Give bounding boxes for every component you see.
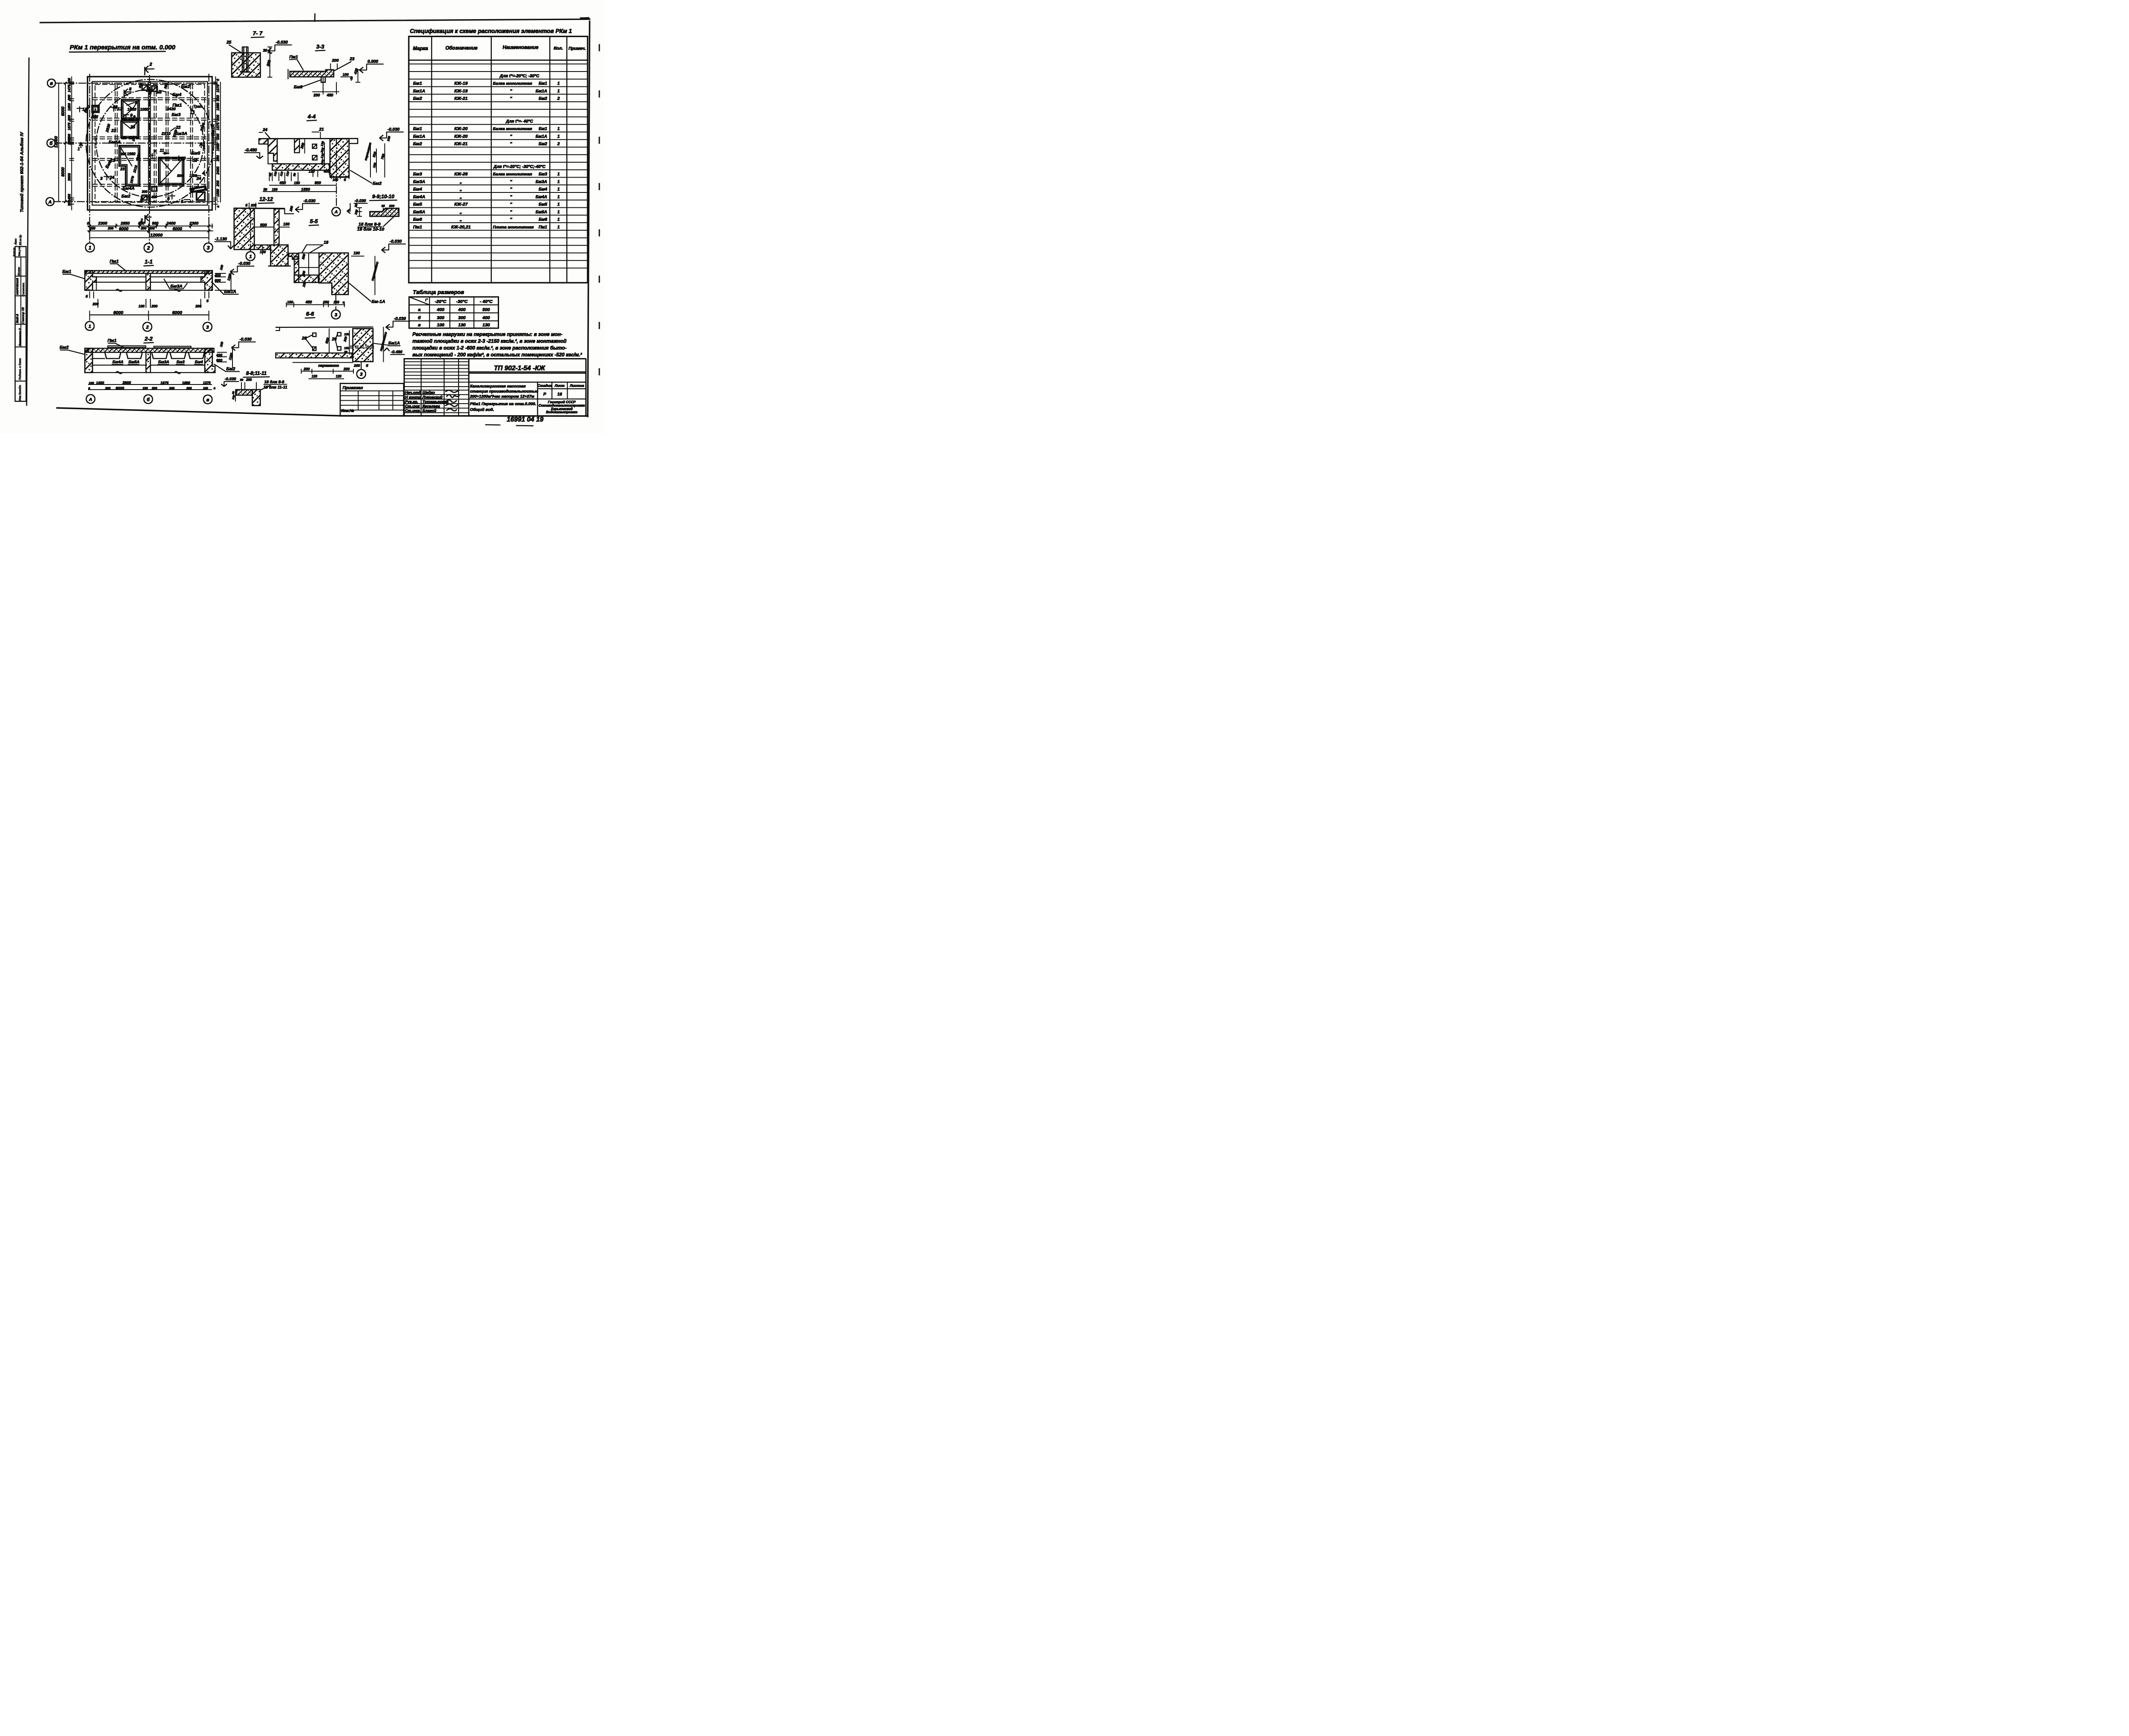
svg-text:Бм1: Бм1: [539, 81, 547, 86]
opening top small b: [152, 86, 158, 92]
svg-text:100: 100: [386, 135, 391, 142]
svg-text:200: 200: [105, 386, 111, 390]
opening bottom small a: [142, 195, 147, 200]
svg-text:7: 7: [153, 150, 156, 155]
svg-text:2830: 2830: [105, 123, 111, 133]
svg-text:100: 100: [353, 251, 360, 255]
left margin stamp column boxes: [15, 247, 26, 402]
svg-text:-0.030: -0.030: [387, 127, 400, 132]
plan outer wall: [88, 77, 212, 210]
cut mark 10: [178, 156, 180, 161]
svg-text:Инв.№подл.: Инв.№подл.: [18, 385, 22, 401]
svg-text:2300: 2300: [98, 221, 108, 226]
1-1 axis circles: [85, 321, 94, 330]
5-5 top-left notch slab: [289, 253, 299, 259]
svg-text:120: 120: [312, 375, 318, 379]
svg-text:Расчетные нагрузки на перек: Расчетные нагрузки на перекрытие приняты…: [413, 332, 562, 337]
svg-text:6000: 6000: [113, 310, 123, 316]
plan inner wall line: [92, 82, 208, 205]
svg-text:19 для 10-10: 19 для 10-10: [357, 227, 384, 232]
svg-text:100: 100: [260, 250, 266, 254]
svg-text:30: 30: [354, 203, 359, 208]
svg-text:1: 1: [557, 209, 560, 215]
svg-text:100: 100: [333, 178, 339, 182]
svg-text:Зам.учт: Зам.учт: [19, 246, 21, 256]
svg-text:400: 400: [214, 273, 221, 278]
cut mark 8: [123, 90, 126, 98]
svg-text:А: А: [89, 397, 92, 402]
svg-text:Лист: Лист: [554, 384, 565, 388]
svg-text:2310: 2310: [161, 132, 171, 136]
cut mark 3: [106, 175, 108, 180]
svg-text:в: в: [50, 81, 53, 86]
svg-text:Бм1А: Бм1А: [224, 289, 236, 294]
4-4 wall web left: [276, 161, 278, 164]
cut mark 11: [163, 152, 169, 155]
opening bottom right thick: [197, 192, 205, 200]
svg-text:„: „: [459, 187, 462, 192]
cut mark 10b: [189, 160, 192, 165]
svg-text:100: 100: [89, 381, 94, 385]
svg-text:Кол.: Кол.: [554, 46, 563, 51]
svg-text:КЖ-20,21: КЖ-20,21: [451, 224, 471, 230]
6-6 anchor squares right: [338, 333, 341, 336]
beam line pair v3: [165, 84, 167, 203]
9-9 slab: [370, 208, 399, 216]
svg-text:А: А: [334, 209, 338, 215]
svg-text:2: 2: [146, 325, 149, 330]
svg-text:1: 1: [557, 217, 560, 222]
svg-text:Таблица размеров: Таблица размеров: [413, 289, 465, 296]
svg-text:450: 450: [151, 195, 157, 199]
svg-text:Бм4А: Бм4А: [123, 186, 135, 191]
axis bubble 3 (plan): [204, 243, 213, 252]
svg-text:6000: 6000: [119, 227, 129, 232]
svg-text:30: 30: [382, 204, 385, 208]
svg-text:Канализационная насосная: Канализационная насосная: [470, 384, 526, 389]
svg-text:вых помещений - 200 кгф/м²,: вых помещений - 200 кгф/м², в остальных …: [413, 352, 582, 358]
svg-text:5: 5: [181, 199, 184, 204]
svg-text:150: 150: [344, 346, 350, 350]
svg-text:Бм3А: Бм3А: [413, 179, 425, 184]
svg-text:6000: 6000: [61, 167, 66, 177]
svg-text:Бм3А: Бм3А: [536, 180, 547, 184]
svg-text:-30°C: -30°C: [456, 299, 468, 304]
sheet frame corner tick: [313, 14, 316, 21]
svg-text:130: 130: [482, 323, 490, 328]
bottom dim row1: [88, 225, 213, 227]
svg-text:Бм5А: Бм5А: [413, 209, 425, 215]
svg-text:9: 9: [133, 115, 136, 120]
1-1 left end block: [85, 271, 96, 290]
svg-text:1: 1: [557, 172, 560, 177]
svg-text:площадки в осях 1-2 -600 к: площадки в осях 1-2 -600 кгс/м.², в зоне…: [413, 345, 567, 351]
svg-text:300: 300: [301, 253, 306, 260]
svg-text:1675: 1675: [68, 122, 72, 130]
svg-text:1850: 1850: [68, 103, 72, 111]
svg-text:400: 400: [458, 307, 466, 313]
svg-text:450: 450: [326, 93, 333, 97]
svg-text:19: 19: [324, 241, 329, 245]
svg-text:30: 30: [240, 378, 244, 382]
4-4 left ledge: [259, 139, 268, 144]
svg-text:0.000: 0.000: [367, 60, 378, 64]
svg-text:Инв.№: Инв.№: [341, 409, 354, 413]
svg-text:Álam: Álam: [14, 238, 17, 245]
svg-text:-1.130: -1.130: [215, 237, 227, 242]
svg-text:Бм5А: Бм5А: [536, 210, 547, 215]
svg-text:Бм1А: Бм1А: [413, 89, 425, 94]
svg-text:тажной площадки в осях 2-3: тажной площадки в осях 2-3 -2150 кгс/м.²…: [413, 339, 567, 344]
svg-text:1: 1: [557, 81, 560, 86]
svg-text:400: 400: [216, 353, 222, 357]
svg-text:200: 200: [216, 95, 220, 101]
svg-text:в: в: [418, 323, 421, 328]
svg-text:200: 200: [353, 363, 360, 367]
beam line pair v1: [115, 84, 116, 203]
6-6 anchor squares left: [313, 333, 316, 336]
svg-text:100: 100: [343, 72, 349, 77]
opening hatch 25: [121, 121, 139, 138]
svg-text:Кеселева: Кеселева: [422, 404, 440, 408]
svg-text:12-12: 12-12: [259, 196, 273, 202]
cut mark 2 bottom: [143, 215, 146, 224]
svg-text:6: 6: [167, 196, 170, 201]
svg-text:„: „: [459, 209, 462, 215]
axis bubble Б: [47, 139, 55, 147]
6-6 left slab piece: [276, 327, 280, 331]
svg-text:-0.030: -0.030: [390, 239, 402, 244]
svg-text:″: ″: [510, 89, 512, 94]
opening top small a: [142, 85, 148, 91]
svg-text:″: ″: [510, 187, 512, 192]
svg-text:1: 1: [557, 194, 560, 199]
svg-text:1: 1: [249, 254, 252, 259]
5-5 left wall: [294, 257, 299, 283]
svg-text:КЖ-20: КЖ-20: [454, 126, 468, 132]
svg-text:120: 120: [286, 171, 290, 177]
svg-text:200: 200: [216, 181, 220, 187]
svg-text:№кл.пр: №кл.пр: [13, 247, 16, 257]
svg-text:Привязан: Привязан: [343, 386, 363, 390]
svg-text:1950: 1950: [127, 152, 135, 156]
svg-text:1450: 1450: [96, 381, 104, 385]
svg-text:200: 200: [343, 336, 348, 342]
svg-text:3900: 3900: [68, 173, 72, 181]
svg-text:- 40°C: - 40°C: [480, 299, 493, 304]
svg-text:150: 150: [142, 386, 148, 390]
svg-text:19 для 11-11: 19 для 11-11: [264, 385, 287, 390]
svg-text:Балка монолитная: Балка монолитная: [493, 127, 532, 132]
svg-text:„: „: [459, 217, 462, 222]
plan slab edge dashed: [95, 84, 204, 202]
svg-text:Бм1А: Бм1А: [413, 134, 425, 139]
svg-text:1475: 1475: [68, 84, 72, 92]
svg-text:Бм3А: Бм3А: [170, 284, 183, 289]
2-2 axis circles: [86, 395, 95, 404]
svg-text:200: 200: [246, 378, 252, 382]
svg-text:Соколовск.: Соколовск.: [22, 282, 25, 297]
axis line А: [53, 201, 219, 203]
svg-text:„: „: [459, 194, 462, 199]
svg-text:″: ″: [510, 194, 512, 199]
2-2 right end block: [205, 348, 215, 373]
opening hatch 8/9: [122, 100, 139, 119]
svg-text:3900: 3900: [122, 381, 131, 385]
svg-text:-0.480: -0.480: [391, 350, 403, 355]
svg-text:1: 1: [557, 89, 560, 94]
svg-text:б: б: [366, 363, 368, 367]
svg-text:1: 1: [203, 145, 206, 150]
svg-text:23: 23: [120, 167, 125, 171]
svg-text:Взаимозам.Л: Взаимозам.Л: [19, 328, 22, 346]
5-5 bottom dims: [287, 304, 345, 306]
svg-text:1: 1: [557, 187, 560, 192]
8-8 leader: [261, 385, 271, 390]
7-7 concrete block: [232, 53, 261, 77]
beam line pair h4: [93, 158, 207, 159]
axis bubble 2 (plan): [144, 244, 153, 253]
svg-text:150: 150: [294, 181, 300, 185]
tank circle outer: [86, 80, 214, 207]
svg-text:24: 24: [262, 128, 268, 132]
svg-text:-0.030: -0.030: [304, 199, 316, 204]
svg-text:1100: 1100: [228, 352, 234, 360]
svg-text:Ст.инж: Ст.инж: [405, 404, 420, 408]
svg-text:200: 200: [250, 204, 257, 207]
svg-text:23: 23: [349, 57, 355, 61]
svg-text:26: 26: [301, 336, 307, 341]
svg-text:1550: 1550: [216, 189, 220, 197]
svg-text:1670: 1670: [129, 175, 135, 184]
5-5 axis 3 circle: [335, 295, 337, 310]
svg-text:2300: 2300: [189, 221, 199, 226]
svg-text:1950: 1950: [216, 143, 220, 151]
svg-text:9-9;10-10: 9-9;10-10: [372, 194, 394, 200]
svg-text:Для t°=-20°C; -30°C: Для t°=-20°C; -30°C: [499, 74, 540, 78]
cut mark 6: [171, 194, 173, 199]
svg-text:16: 16: [557, 392, 562, 397]
svg-text:в: в: [343, 301, 345, 304]
svg-text:Бм3: Бм3: [539, 172, 547, 177]
axis bubble В: [47, 79, 55, 87]
svg-text:Наименование: Наименование: [502, 45, 539, 50]
svg-text:Марка: Марка: [413, 46, 428, 52]
opening small left: [92, 106, 99, 112]
svg-text:23: 23: [112, 105, 118, 110]
svg-text:-0.030: -0.030: [394, 316, 406, 321]
axis line 2: [149, 75, 151, 244]
svg-text:Бм6: Бм6: [294, 85, 302, 90]
svg-text:100: 100: [203, 387, 208, 390]
12-12 top line: [234, 207, 285, 210]
right dim detail chain: [215, 77, 216, 210]
svg-text:8-8;11-11: 8-8;11-11: [246, 371, 267, 376]
6-6 block dashes: [350, 345, 376, 347]
cut mark 1 left: [80, 143, 82, 148]
3-3 slab left tick: [287, 69, 289, 79]
svg-text:б: б: [344, 178, 347, 182]
svg-text:250: 250: [89, 227, 96, 230]
svg-text:Бм6: Бм6: [413, 217, 422, 222]
svg-text:Бм5: Бм5: [413, 202, 422, 207]
svg-text:1: 1: [557, 179, 560, 184]
svg-text:395: 395: [121, 152, 126, 156]
bottom dim row2: [88, 230, 213, 232]
svg-text:20: 20: [232, 391, 235, 395]
svg-text:300: 300: [458, 315, 466, 320]
svg-text:1850: 1850: [182, 381, 190, 385]
4-4 right wall: [330, 139, 349, 178]
beam line pair h5: [93, 184, 207, 185]
svg-text:Пм1: Пм1: [290, 55, 298, 60]
2-2 plate strips: [108, 346, 146, 347]
svg-text:Шейко: Шейко: [422, 390, 435, 395]
svg-text:3-3: 3-3: [316, 43, 325, 50]
svg-text:3: 3: [335, 313, 337, 318]
svg-text:Р: Р: [543, 392, 546, 397]
1-1 beam lines right bay: [150, 276, 205, 278]
svg-text:„: „: [459, 179, 462, 184]
svg-text:Спецификация к схеме располож: Спецификация к схеме расположения элемен…: [410, 28, 572, 34]
svg-text:Госстрой СССР: Госстрой СССР: [548, 400, 576, 404]
svg-text:переменно: переменно: [318, 363, 339, 367]
svg-text:Бм4А: Бм4А: [112, 360, 123, 364]
svg-text:1: 1: [89, 324, 91, 329]
svg-text:200: 200: [141, 227, 147, 230]
sheet frame right border: [588, 21, 590, 416]
svg-text:200: 200: [68, 95, 72, 101]
5-5 inner opening: [299, 253, 319, 275]
svg-text:23: 23: [111, 129, 116, 133]
svg-text:6000: 6000: [61, 106, 66, 116]
svg-text:200: 200: [107, 227, 114, 230]
leader 8: [127, 103, 135, 106]
plan centre wall: [147, 82, 149, 204]
svg-text:16991 04 19: 16991 04 19: [507, 416, 544, 423]
svg-text:Для t°=-20°C; -30°C;-40°C: Для t°=-20°C; -30°C;-40°C: [493, 164, 546, 169]
svg-text:б: б: [207, 299, 209, 303]
4-4 top line: [259, 137, 358, 141]
svg-text:5-5: 5-5: [310, 218, 318, 224]
svg-text:б: б: [418, 315, 421, 320]
svg-text:Бм5: Бм5: [539, 202, 547, 207]
svg-text:500: 500: [482, 307, 490, 313]
svg-text:1: 1: [89, 245, 92, 251]
2-2 bottom dim row1: [89, 384, 212, 385]
title block central signature table: [404, 359, 469, 416]
3-3 slab: [290, 70, 334, 77]
3-3 rib Бм6: [321, 77, 325, 83]
svg-text:б: б: [86, 295, 88, 298]
svg-text:Бм2: Бм2: [413, 96, 422, 101]
axis line В: [55, 82, 217, 84]
tank circle inner: [96, 89, 204, 197]
svg-text:1: 1: [557, 126, 560, 132]
4-4 dim row 50/150/1550: [263, 191, 337, 192]
svg-text:50: 50: [293, 173, 297, 177]
svg-text:Бм1: Бм1: [539, 127, 547, 132]
axis line 3: [208, 74, 210, 243]
svg-text:18 для 8-8: 18 для 8-8: [264, 380, 285, 385]
svg-text:120: 120: [232, 395, 236, 400]
svg-text:500: 500: [92, 114, 98, 118]
right dim ticks 2: [220, 82, 221, 203]
svg-text:200: 200: [68, 139, 72, 145]
12-12 top-right notch: [279, 209, 294, 214]
svg-text:РКм 1 перекрытия на отм. 0.: РКм 1 перекрытия на отм. 0.000: [70, 44, 176, 51]
cut mark 12: [113, 106, 115, 112]
svg-text:Бм4: Бм4: [413, 187, 422, 192]
svg-text:″: ″: [510, 134, 512, 139]
4-4 left wall: [268, 139, 278, 161]
right edge scan marks: [598, 45, 601, 415]
svg-text:100: 100: [219, 341, 224, 347]
12-12 leg ground line: [268, 265, 291, 267]
6-6 right block: [353, 329, 373, 362]
svg-text:-0.030: -0.030: [276, 40, 288, 45]
svg-text:200: 200: [92, 302, 98, 306]
4-4 right ledge: [349, 138, 358, 143]
4-4 dims 50-120-110-120-50: [269, 172, 270, 181]
axis line Б: [55, 142, 214, 144]
svg-text:переменно: переменно: [364, 142, 372, 161]
svg-text:РКм1 Перекрытия на отм.0.000.: РКм1 Перекрытия на отм.0.000.: [470, 402, 536, 406]
svg-text:50: 50: [264, 188, 267, 192]
svg-text:30: 30: [263, 48, 267, 52]
svg-text:200÷1200м³/час напором 12÷27м: 200÷1200м³/час напором 12÷27м: [470, 394, 534, 399]
svg-text:Зб.сх.др: Зб.сх.др: [19, 235, 22, 245]
svg-text:Нач.отд: Нач.отд: [405, 390, 421, 395]
svg-text:120: 120: [336, 375, 341, 379]
svg-text:200: 200: [169, 386, 175, 390]
svg-text:-20°C: -20°C: [435, 299, 446, 304]
svg-text:НАРУЖНАЯ: НАРУЖНАЯ: [16, 278, 19, 295]
opening big right 10/11: [159, 158, 184, 185]
svg-text:КЖ-26: КЖ-26: [454, 172, 468, 177]
4-4 dim row 450/150/950: [270, 184, 337, 186]
svg-text:Бм3А: Бм3А: [158, 360, 169, 364]
svg-text:2: 2: [149, 62, 152, 67]
svg-text:Бм2: Бм2: [539, 142, 547, 146]
4-4 bottom slab: [273, 164, 330, 170]
8-8 leg: [252, 390, 261, 406]
svg-text:Благой: Благой: [422, 409, 436, 413]
svg-text:а: а: [418, 307, 421, 313]
privyazan table: [340, 384, 404, 416]
sheet frame bottom border: [57, 408, 588, 416]
svg-text:3: 3: [100, 176, 103, 181]
svg-text:12000: 12000: [150, 233, 163, 238]
svg-text:КЖ-20: КЖ-20: [454, 134, 468, 139]
svg-text:Бм4: Бм4: [539, 187, 547, 192]
svg-text:2000: 2000: [135, 152, 141, 161]
svg-text:500: 500: [260, 223, 267, 227]
svg-text:КЖ-21: КЖ-21: [454, 141, 468, 146]
svg-text:4-4: 4-4: [307, 113, 316, 120]
svg-text:Бм3: Бм3: [172, 112, 181, 118]
svg-text:300: 300: [300, 142, 305, 149]
svg-text:Тотамышева: Тотамышева: [422, 400, 448, 404]
svg-text:6000: 6000: [172, 227, 182, 232]
svg-text:300: 300: [68, 200, 72, 206]
svg-text:Подпись и дата: Подпись и дата: [18, 358, 22, 380]
5-5 bottom slab: [294, 275, 318, 283]
leader 22: [170, 128, 175, 132]
svg-text:Бм1А: Бм1А: [388, 341, 400, 346]
svg-text:1375: 1375: [203, 381, 211, 385]
svg-text:Стадия: Стадия: [537, 384, 552, 388]
